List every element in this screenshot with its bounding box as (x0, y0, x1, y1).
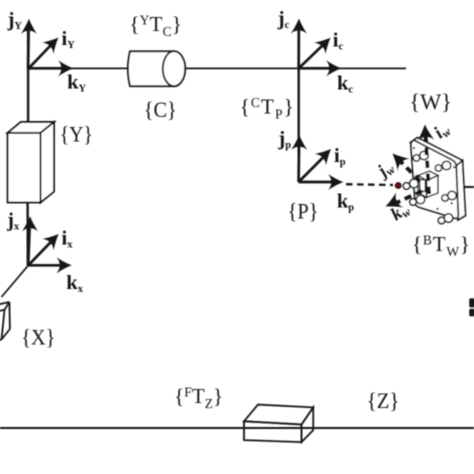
plate top face (411, 138, 463, 167)
axis jp (297, 145, 300, 182)
svg-text:kx: kx (66, 272, 83, 295)
svg-text:{X}: {X} (21, 324, 55, 349)
axis iY (28, 45, 51, 69)
axis jw dashed (399, 160, 420, 181)
wire: short line right of wheel (464, 186, 474, 188)
axis kc (299, 67, 332, 70)
bolt 4 (416, 195, 425, 204)
frame c axes (299, 29, 332, 68)
svg-text:jc: jc (277, 8, 290, 31)
svg-text:{W}: {W} (409, 89, 452, 114)
svg-text:{YTC}: {YTC} (129, 12, 182, 39)
axis iw dashed (426, 133, 430, 194)
svg-text:{CTP}: {CTP} (240, 94, 294, 121)
svg-text:{C}: {C} (144, 97, 177, 122)
axis kw dashed (396, 191, 422, 203)
svg-text:iw: iw (430, 118, 455, 144)
cylinder C (128, 51, 185, 86)
frame P arrowheads (291, 135, 343, 190)
dashed line P to W (346, 183, 393, 186)
bolt 6 (444, 214, 453, 223)
box X (small cuboid at left edge) (0, 302, 10, 343)
axis jc (297, 29, 300, 68)
svg-text:{P}: {P} (288, 198, 319, 223)
axis ic (299, 45, 324, 69)
bolt 5 (448, 191, 457, 200)
frame Y arrowheads (21, 19, 73, 77)
plate holes (413, 147, 456, 210)
axis ip (299, 157, 324, 183)
axis kx (28, 264, 62, 267)
svg-text:{FTZ}: {FTZ} (174, 384, 223, 411)
wire: vertical line Y origin down to box Y and to X origin (27, 30, 29, 133)
bolt 1 (420, 151, 429, 160)
partial shape at right edge (469, 298, 474, 316)
frame c arrowheads (291, 19, 341, 77)
axis jx (28, 227, 29, 265)
svg-text:ix: ix (62, 228, 74, 251)
svg-text:jx: jx (6, 209, 20, 232)
wire: diagonal X origin to small box (2, 265, 29, 297)
svg-text:iY: iY (62, 28, 76, 51)
axis kY (28, 67, 64, 70)
bolt 3 (410, 179, 419, 188)
axis kp (299, 181, 334, 184)
plate right face (456, 161, 466, 221)
frame W arrowheads (382, 124, 434, 214)
wire: vertical line c to P (298, 30, 300, 182)
plate front face (411, 140, 458, 218)
svg-text:ip: ip (334, 145, 346, 168)
frame Y axes (28, 29, 64, 69)
axis jY (27, 29, 30, 69)
svg-text:kY: kY (67, 72, 86, 95)
svg-text:ic: ic (333, 30, 344, 53)
frame P axes (299, 145, 334, 182)
svg-text:jY: jY (7, 9, 23, 32)
svg-text:kc: kc (337, 73, 353, 96)
axis ix (28, 241, 52, 265)
bolts (403, 151, 456, 224)
wire: main top horizontal line Y-C-W (28, 67, 406, 69)
box Z (flat cuboid on bottom line) (244, 405, 313, 443)
svg-text:jp: jp (277, 128, 291, 151)
svg-text:kp: kp (337, 191, 354, 214)
box Y (cuboid) (8, 122, 54, 203)
frame X arrowheads (22, 216, 72, 273)
svg-text:{Z}: {Z} (367, 388, 400, 413)
svg-text:{BTW}: {BTW} (412, 232, 470, 259)
svg-text:{Y}: {Y} (60, 122, 93, 147)
wheel W plate (411, 138, 466, 221)
hub box on wheel (418, 171, 438, 198)
node: red dot contact point (395, 183, 401, 189)
wire: bottom horizontal line F-Z (0, 427, 474, 429)
bolt 2 (442, 161, 451, 170)
svg-text:jw: jw (371, 156, 398, 184)
frame X axes (28, 227, 62, 265)
